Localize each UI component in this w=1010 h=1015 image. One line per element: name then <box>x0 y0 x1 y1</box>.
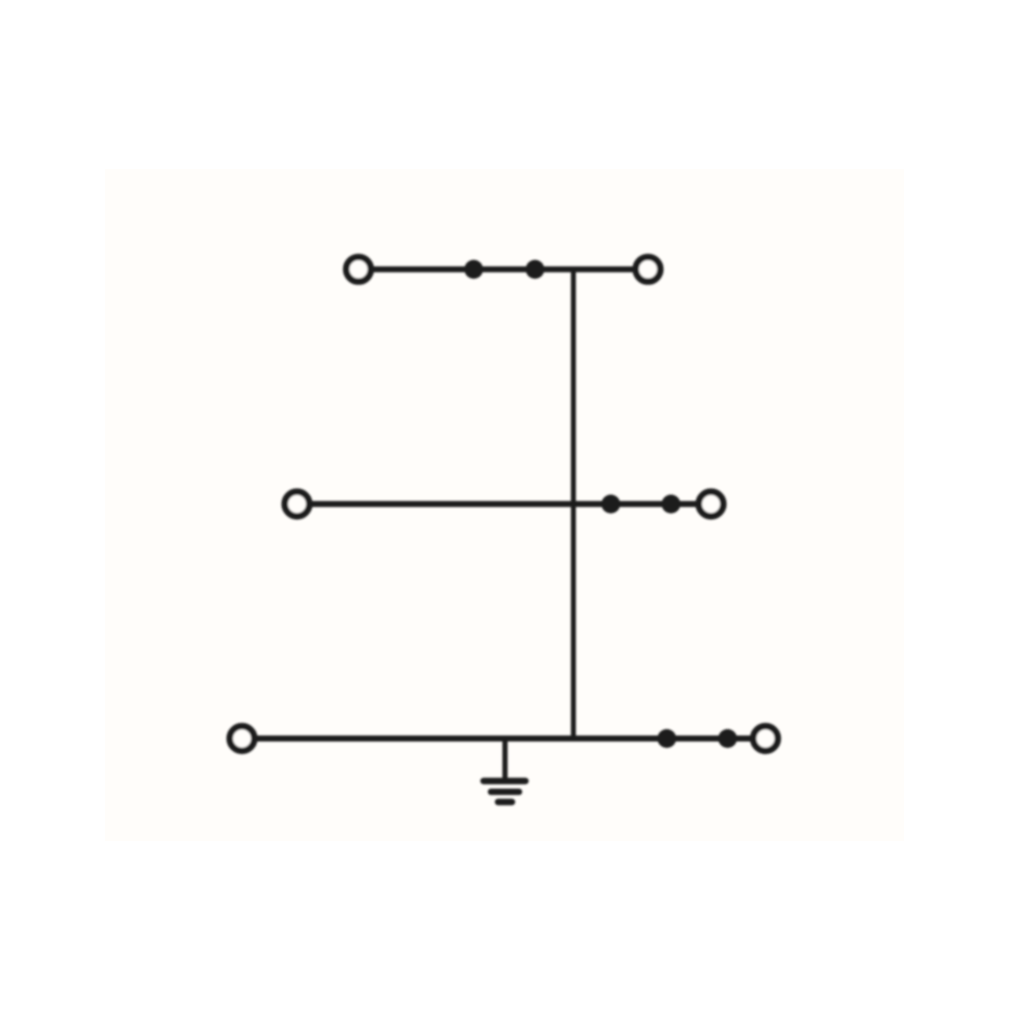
terminal clamp middle right <box>699 492 724 517</box>
terminal clamp top right <box>636 257 661 282</box>
junction dot top deck B <box>526 260 545 279</box>
terminal clamp bottom left <box>230 726 255 751</box>
terminal clamp top left <box>346 257 371 282</box>
junction dot middle deck A <box>601 495 620 514</box>
diagram paper area <box>105 169 904 841</box>
wire middle deck <box>310 501 698 507</box>
junction dot middle deck B <box>662 495 681 514</box>
junction dot top deck A <box>464 260 483 279</box>
wire top deck <box>371 266 635 272</box>
ground <box>484 739 526 803</box>
junction dot bottom deck A <box>657 729 676 748</box>
wire vertical bus <box>571 269 576 738</box>
terminal clamp bottom right <box>753 726 778 751</box>
junction dot bottom deck B <box>718 729 737 748</box>
terminal clamp middle left <box>285 492 310 517</box>
wire bottom deck <box>255 736 753 742</box>
